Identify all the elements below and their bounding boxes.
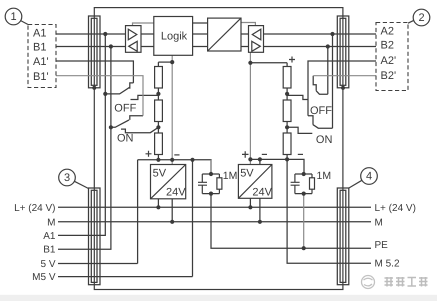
switch OFF right tab (287, 95, 308, 99)
callout circle 1 (5, 8, 28, 25)
svg-text:L+ (24 V): L+ (24 V) (14, 203, 55, 214)
switch ON right arm (313, 125, 333, 129)
wire A1' row with elbow down (56, 61, 133, 83)
watermark strip bottom (0, 295, 437, 301)
isolation barrier box (208, 18, 241, 51)
svg-text:24V: 24V (252, 186, 272, 198)
svg-text:A2: A2 (381, 25, 394, 37)
wire A1 row (56, 33, 126, 35)
node wire plus right (250, 159, 304, 174)
wire A2 row (264, 33, 377, 35)
wire combo right bottom gray (303, 194, 305, 249)
svg-text:L+ (24 V): L+ (24 V) (375, 203, 416, 214)
svg-text:1M: 1M (317, 170, 332, 182)
svg-text:B1: B1 (43, 245, 56, 256)
wire isolation to right triangle-box (241, 34, 249, 47)
wire M5 V label (58, 276, 193, 278)
resistor R2 (155, 100, 163, 122)
input buffer box U2 (126, 26, 142, 53)
output buffer box U3 (249, 26, 264, 53)
svg-text:Logik: Logik (161, 30, 188, 42)
svg-text:3: 3 (64, 172, 70, 184)
svg-text:A1': A1' (33, 56, 49, 68)
connector rail bottom-right (337, 188, 349, 285)
callout circle 3 (59, 169, 89, 188)
node wire minus left (138, 160, 211, 174)
switch ON left jaw (130, 116, 143, 120)
bus L+ (58, 206, 371, 208)
wire B2 vertical (327, 47, 329, 95)
svg-text:M: M (375, 217, 383, 228)
logic box U1 (154, 17, 193, 56)
wire M 5.2 (287, 159, 371, 263)
wire B2 row (264, 46, 377, 48)
wire B1 vertical (58, 47, 111, 250)
wire B2' row gray (313, 75, 376, 77)
wire Logik common down gray (171, 55, 173, 164)
resistor R1 (155, 67, 163, 89)
svg-text:2: 2 (418, 12, 424, 24)
resistor chain left leads (157, 62, 159, 160)
wire PE (211, 194, 371, 249)
svg-text:5V: 5V (240, 167, 254, 179)
callout circle 2 (408, 9, 430, 26)
bus M (58, 221, 371, 223)
resistor R6 (283, 133, 291, 155)
resistor R5 (283, 100, 291, 122)
svg-text:B1': B1' (33, 71, 49, 83)
resistor chain right leads (286, 63, 288, 160)
svg-text:OFF: OFF (114, 103, 136, 115)
switch OFF left jaw (130, 83, 134, 89)
dashed terminal box 1 (28, 25, 56, 88)
svg-text:A1: A1 (33, 27, 46, 39)
svg-text:A1: A1 (43, 231, 56, 242)
svg-text:PE: PE (375, 240, 389, 251)
DC-DC converter right (238, 165, 272, 199)
svg-text:M5 V: M5 V (32, 272, 56, 283)
dashed terminal box 2 (376, 23, 408, 91)
svg-text:OFF: OFF (310, 105, 332, 117)
svg-text:B2: B2 (381, 39, 394, 51)
wire 5V plus down (137, 160, 139, 264)
wire B1 row (56, 46, 126, 48)
switch OFF left tab (131, 95, 159, 99)
svg-text:24V: 24V (166, 187, 186, 199)
svg-text:4: 4 (366, 171, 372, 183)
resistor R4 (283, 67, 291, 89)
svg-text:1M: 1M (223, 170, 238, 182)
svg-text:M 5.2: M 5.2 (375, 259, 400, 270)
wire Logik to isolation (193, 23, 208, 47)
wire combo left bottom gray (210, 160, 212, 174)
callout circle 4 (349, 168, 377, 188)
wire right triangle pin down gray (249, 52, 251, 164)
wire B1' row gray (56, 76, 143, 116)
connector rail top-left (89, 16, 101, 88)
module outline (94, 8, 343, 290)
svg-text:A2': A2' (381, 55, 397, 67)
switch OFF left arm (105, 87, 129, 94)
switch ON left arm (111, 120, 129, 127)
connector rail top-right (337, 16, 349, 88)
wire triangle-box to Logik (141, 34, 154, 47)
RC combo left (1M with capacitor) (198, 174, 222, 194)
watermark glyphs (385, 277, 428, 287)
svg-text:M: M (47, 217, 55, 228)
switch ON left tab (121, 127, 158, 132)
wire 5 V label (58, 263, 138, 265)
DC-DC left pins (158, 199, 172, 222)
switch OFF right jaw (313, 76, 316, 91)
polarity marks (146, 57, 304, 158)
switch OFF right arm (316, 91, 328, 94)
connector rail bottom-left (89, 188, 101, 285)
svg-text:B2': B2' (381, 70, 397, 82)
switch ON right tab (287, 127, 312, 133)
DC-DC converter left (151, 165, 186, 199)
resistor R3 (155, 133, 163, 155)
wire isolation to right triangle top gray (241, 23, 255, 26)
wire chain top right (250, 62, 287, 64)
gray wires (56, 23, 376, 249)
svg-text:5 V: 5 V (40, 259, 55, 270)
wire triangle top to Logik gray (133, 23, 154, 26)
DC-DC right pins (250, 159, 260, 221)
watermark logo (362, 276, 375, 289)
svg-text:ON: ON (316, 134, 333, 146)
wire chain top to Logik pin (158, 61, 172, 63)
svg-text:1: 1 (10, 11, 16, 23)
svg-text:ON: ON (117, 133, 134, 145)
switch ON right jaw (308, 116, 313, 125)
wire A2 vertical (332, 34, 334, 128)
RC combo right (1M with capacitor) (291, 174, 315, 194)
svg-text:B1: B1 (33, 42, 46, 54)
wire A1 vertical (58, 34, 105, 235)
svg-text:5V: 5V (153, 168, 167, 180)
wire A2' row with elbow down (308, 61, 376, 116)
wire M5V down (192, 160, 194, 277)
